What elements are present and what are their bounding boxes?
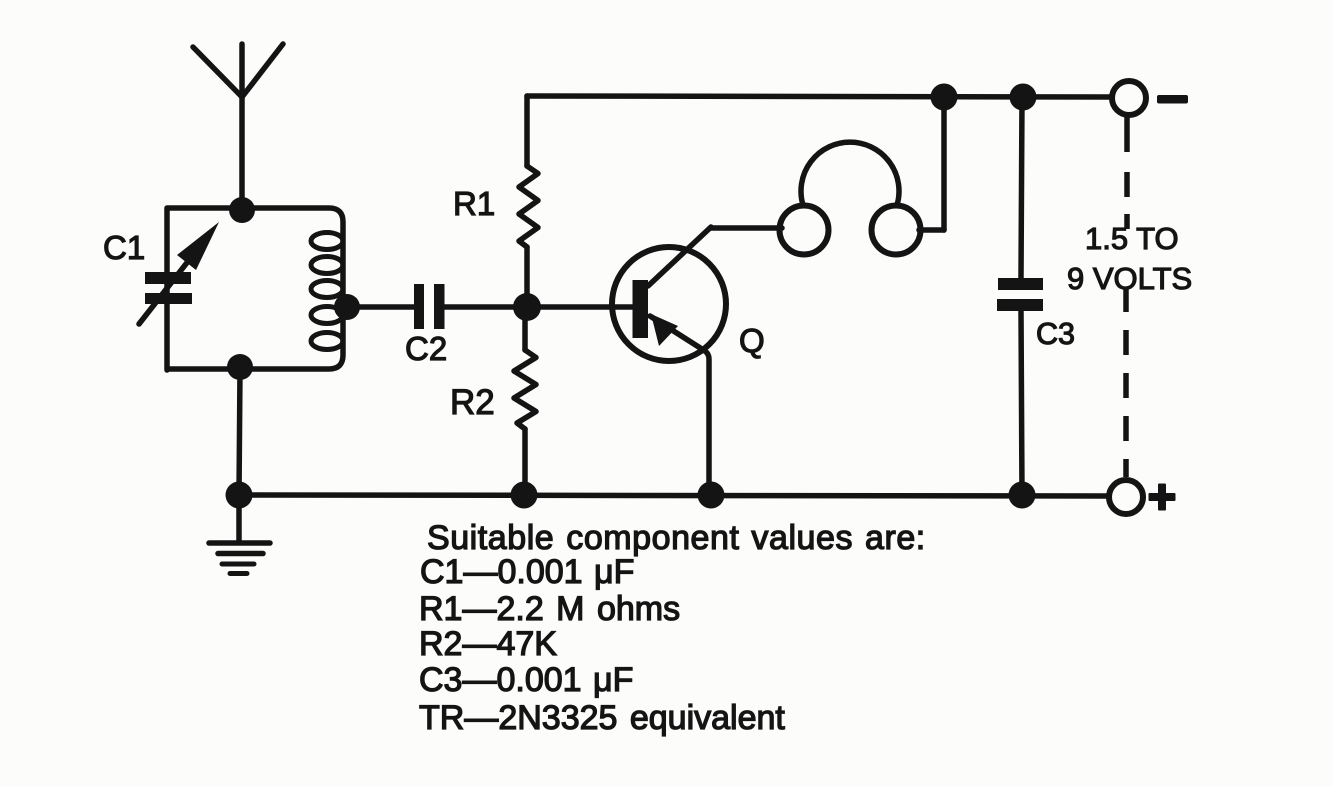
- svg-text:Q: Q: [739, 322, 765, 359]
- svg-text:9 VOLTS: 9 VOLTS: [1067, 261, 1192, 296]
- svg-text:C1: C1: [103, 229, 145, 266]
- svg-text:R2: R2: [450, 383, 495, 422]
- svg-text:R1: R1: [453, 185, 495, 222]
- svg-text:C2: C2: [405, 330, 447, 367]
- svg-text:Suitable component values are:: Suitable component values are:: [427, 519, 926, 557]
- svg-text:C1—0.001 μF: C1—0.001 μF: [420, 553, 634, 591]
- svg-text:TR—2N3325 equivalent: TR—2N3325 equivalent: [419, 699, 785, 737]
- svg-text:1.5 TO: 1.5 TO: [1085, 221, 1179, 256]
- svg-text:R1—2.2 M ohms: R1—2.2 M ohms: [419, 590, 680, 628]
- svg-text:C3: C3: [1036, 317, 1075, 351]
- svg-text:R2—47K: R2—47K: [419, 625, 557, 663]
- svg-text:C3—0.001 μF: C3—0.001 μF: [419, 661, 633, 699]
